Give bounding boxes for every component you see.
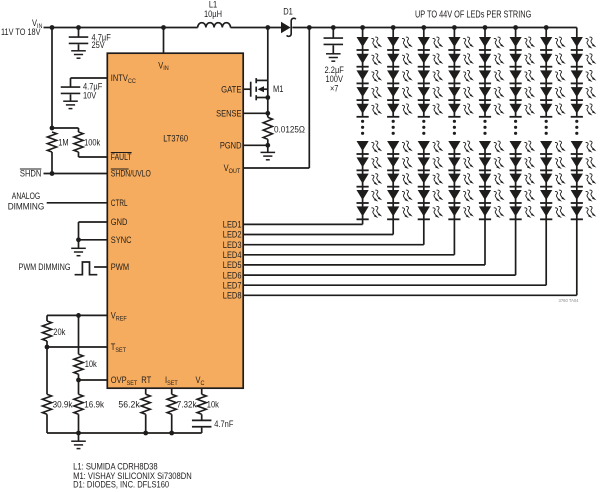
svg-text:SET: SET — [167, 380, 178, 387]
node VREF junction — [76, 313, 81, 318]
wire rail D1 to end — [292, 27, 577, 29]
svg-text:LED6: LED6 — [223, 270, 242, 280]
transistor M1 — [251, 78, 268, 100]
wire 100k to FAULT — [78, 152, 80, 157]
svg-text:CTRL: CTRL — [111, 198, 128, 208]
wire 56.2k to bus — [145, 414, 147, 433]
LED string 2 — [243, 25, 413, 234]
svg-text:GATE: GATE — [221, 84, 242, 94]
svg-text:ANALOG: ANALOG — [12, 191, 41, 201]
wire GND pin — [79, 221, 108, 223]
svg-text:REF: REF — [116, 316, 127, 323]
capacitor 2.2uF 100V x7 — [332, 28, 334, 39]
inductor L1 10uH — [198, 23, 231, 28]
node output cap junction — [331, 25, 336, 30]
svg-text:10V: 10V — [83, 91, 96, 101]
svg-text:PWM: PWM — [111, 262, 129, 272]
svg-text:FAULT: FAULT — [111, 152, 132, 162]
svg-text:SYNC: SYNC — [111, 235, 132, 245]
wire SENSE — [243, 112, 268, 114]
svg-text:100k: 100k — [84, 137, 101, 147]
svg-text:PGND: PGND — [220, 141, 242, 151]
svg-text:SHDN: SHDN — [20, 169, 42, 179]
ground bus symbol — [78, 433, 80, 441]
svg-text:SET: SET — [127, 380, 138, 387]
wire sense resistor bottom — [267, 139, 269, 145]
LED string 5 — [243, 25, 504, 265]
node SENSE junction — [265, 111, 270, 116]
svg-text:LED3: LED3 — [223, 240, 242, 250]
wire 30.9k to bus — [46, 414, 48, 433]
svg-text:SENSE: SENSE — [216, 109, 242, 119]
wire PGND — [243, 144, 268, 146]
svg-text:10k: 10k — [85, 359, 98, 369]
node M1 drain junction — [265, 25, 270, 30]
svg-text:C: C — [201, 380, 205, 387]
wire VOUT — [243, 167, 309, 169]
resistor R 56.2k — [141, 394, 150, 414]
ground GND SYNC — [78, 240, 80, 249]
LED string 4 — [243, 25, 474, 255]
svg-text:16.9k: 16.9k — [84, 399, 104, 409]
svg-text:25V: 25V — [92, 40, 105, 50]
svg-text:PWM DIMMING: PWM DIMMING — [19, 262, 71, 272]
ground input cap — [71, 50, 86, 52]
svg-text:×7: ×7 — [330, 84, 339, 94]
svg-text:INTV: INTV — [111, 73, 128, 83]
node bus 7.32k — [169, 431, 174, 436]
node VOUT junction — [307, 25, 312, 30]
svg-text:10µH: 10µH — [204, 9, 222, 19]
LED string 7 — [243, 25, 566, 285]
resistor R 10k upper — [74, 354, 83, 374]
svg-text:11V TO 18V: 11V TO 18V — [1, 27, 41, 37]
svg-text:RT: RT — [141, 375, 152, 385]
wire GATE — [243, 88, 251, 90]
wire OVPSET column down — [78, 380, 80, 394]
svg-text:D1: D1 — [283, 7, 293, 17]
node OVPSET junction — [76, 378, 81, 383]
svg-text:LED5: LED5 — [223, 260, 242, 270]
LED string 8 — [243, 28, 596, 296]
ground PGND — [267, 145, 269, 152]
capacitor 4.7nF — [192, 419, 212, 421]
wire divider top branch — [52, 127, 79, 129]
wire SYNC pin — [79, 239, 108, 241]
node VIN input — [50, 25, 55, 30]
resistor R 16.9k — [74, 394, 83, 414]
ground output cap — [326, 53, 341, 55]
resistor R 30.9k — [42, 394, 51, 414]
wire OVPSET — [79, 379, 108, 381]
wire RT stub — [145, 388, 147, 394]
wire ground bus — [47, 432, 202, 434]
svg-text:SHDN/UVLO: SHDN/UVLO — [111, 169, 151, 179]
pulse waveform symbol — [75, 262, 98, 275]
wire SHDN — [44, 173, 108, 175]
node M1 source — [265, 95, 270, 100]
LED string 1 — [243, 25, 382, 224]
node input cap junction — [76, 25, 81, 30]
svg-text:56.2k: 56.2k — [118, 399, 140, 409]
svg-text:20k: 20k — [53, 327, 66, 337]
node PGND junction — [265, 143, 270, 148]
svg-text:4.7nF: 4.7nF — [214, 419, 234, 429]
wire VC stub — [201, 388, 203, 394]
resistor R 1M — [47, 132, 56, 152]
svg-text:LT3760: LT3760 — [163, 134, 188, 144]
wire INTVCC — [71, 77, 108, 79]
wire M1 drain — [267, 28, 269, 81]
diode D1 — [281, 22, 291, 34]
wire 10k to cap — [201, 414, 203, 420]
wire 20k to TSET — [46, 341, 48, 347]
node divider top — [50, 126, 55, 131]
capacitor 4.7uF 25V — [78, 28, 80, 38]
svg-text:LED8: LED8 — [223, 291, 242, 301]
svg-text:GND: GND — [111, 217, 128, 227]
svg-text:LED2: LED2 — [223, 230, 242, 240]
wire 1M to SHDN node — [51, 152, 53, 174]
node GND SYNC junction — [76, 237, 81, 242]
wire 7.32k to bus — [171, 414, 173, 433]
resistor R sense 0.0125 — [263, 117, 272, 139]
wire CTRL — [47, 202, 108, 204]
resistor R 10k VC — [197, 394, 206, 414]
svg-text:UP TO 44V OF LEDs PER STRING: UP TO 44V OF LEDs PER STRING — [415, 9, 531, 20]
svg-text:DIMMING: DIMMING — [8, 202, 45, 212]
wire rail L1 to D1 — [231, 27, 282, 29]
svg-text:D1: DIODES, INC. DFLS160: D1: DIODES, INC. DFLS160 — [73, 480, 169, 490]
wire M1 source to SENSE — [267, 98, 269, 114]
wire VIN input stub — [44, 27, 53, 29]
svg-text:30.9k: 30.9k — [53, 399, 73, 409]
wire ISET stub — [171, 388, 173, 394]
wire VREF — [47, 314, 107, 316]
svg-text:SET: SET — [115, 347, 126, 354]
capacitor 4.7uF 10V — [61, 86, 81, 88]
resistor R 20k — [42, 321, 51, 341]
LED string 6 — [243, 25, 535, 275]
node VIN pin junction — [161, 25, 166, 30]
svg-text:OUT: OUT — [229, 168, 241, 175]
LED string 3 — [243, 25, 443, 245]
wire TSET column down — [46, 347, 48, 394]
svg-text:M1: M1 — [273, 84, 283, 94]
svg-text:0.0125Ω: 0.0125Ω — [274, 124, 305, 134]
node TSET junction — [45, 345, 50, 350]
svg-text:1M: 1M — [58, 137, 68, 147]
wire VOUT column — [308, 28, 310, 169]
wire 10k to OVPSET — [78, 374, 80, 380]
svg-text:CC: CC — [128, 78, 136, 85]
resistor R 7.32k — [167, 394, 176, 414]
svg-text:IN: IN — [163, 65, 169, 72]
svg-text:3760 TA04: 3760 TA04 — [559, 298, 579, 303]
wire TSET — [47, 346, 107, 348]
wire VIN pin drop — [163, 28, 165, 54]
node bus 16.9k — [76, 431, 81, 436]
wire top rail left — [52, 27, 198, 29]
svg-text:LED4: LED4 — [223, 250, 242, 260]
resistor R 100k — [74, 132, 83, 152]
wire 16.9k to bus — [78, 414, 80, 433]
wire sense resistor top — [267, 113, 269, 117]
node SHDN junction — [50, 171, 55, 176]
svg-text:LED1: LED1 — [223, 220, 242, 230]
IC U1 LT3760 body — [107, 53, 243, 388]
svg-text:10k: 10k — [207, 399, 220, 409]
svg-text:7.32k: 7.32k — [177, 399, 197, 409]
node bus 56.2k — [143, 431, 148, 436]
wire VREF column down — [78, 315, 80, 354]
wire input column down — [51, 28, 53, 129]
ground INTVCC cap — [63, 100, 78, 102]
svg-text:LED7: LED7 — [223, 280, 242, 290]
wire PWM — [94, 266, 107, 268]
svg-text:OVP: OVP — [111, 375, 127, 385]
